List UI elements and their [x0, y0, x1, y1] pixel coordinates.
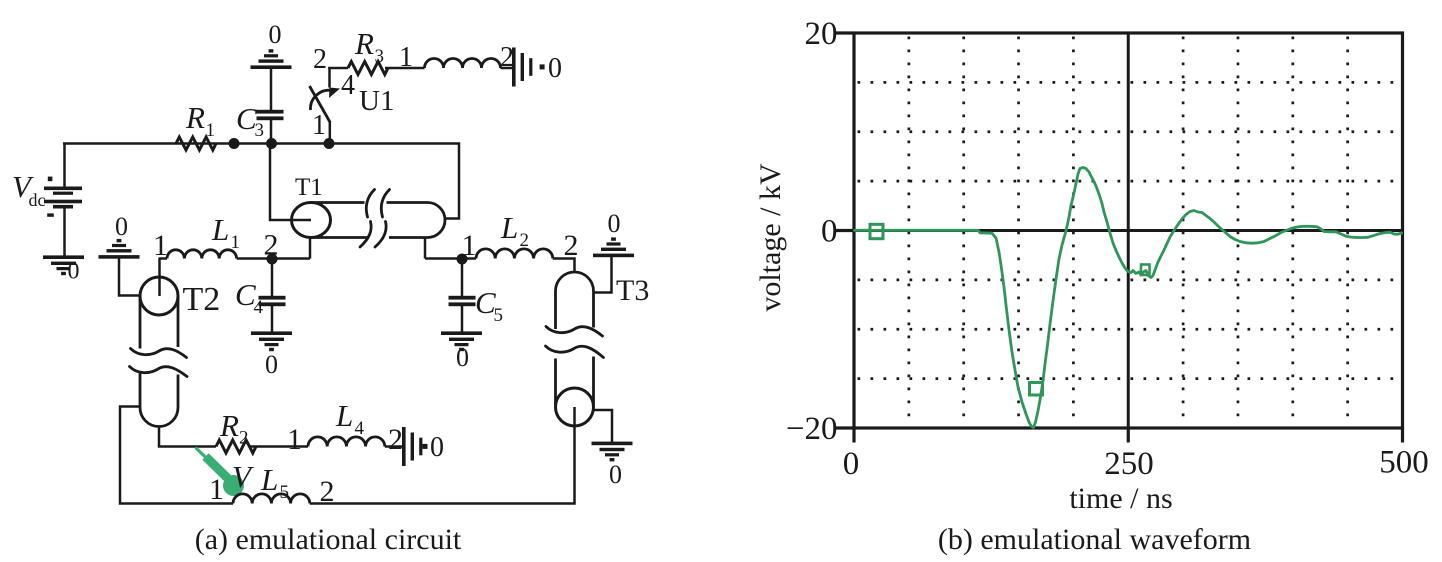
- resistor R3: [348, 62, 388, 75]
- svg-text:0: 0: [269, 20, 282, 49]
- svg-text:T1: T1: [295, 174, 323, 201]
- svg-text:4: 4: [254, 297, 264, 318]
- svg-text:2: 2: [564, 229, 579, 262]
- svg-text:R: R: [354, 26, 374, 61]
- x tick 500: [1401, 428, 1404, 443]
- battery V_dc: [44, 177, 82, 217]
- wire node1 to C5: [461, 259, 464, 296]
- svg-text:1: 1: [206, 120, 216, 141]
- svg-text:V: V: [232, 459, 254, 494]
- y tick 20: [835, 31, 853, 34]
- wire node2 to C4: [271, 259, 274, 296]
- wire R2 to L4: [250, 445, 308, 448]
- marker square 2: [1030, 383, 1043, 396]
- waveform curve: [855, 168, 1402, 428]
- svg-text:U1: U1: [359, 85, 394, 117]
- svg-text:2: 2: [388, 423, 403, 456]
- x tick 250: [1127, 428, 1130, 443]
- node U1/bus: [324, 138, 335, 149]
- capacitor C4: [259, 296, 286, 300]
- y tick 0: [835, 229, 853, 232]
- svg-text:0: 0: [456, 343, 469, 372]
- svg-text:0: 0: [843, 446, 860, 482]
- wire T1 shield-left to node 2: [272, 257, 311, 260]
- wire U1 to R3: [328, 67, 348, 70]
- svg-text:L: L: [335, 398, 353, 433]
- svg-text:(b) emulational waveform: (b) emulational waveform: [938, 523, 1251, 556]
- x tick 0: [852, 428, 855, 443]
- grid horizontal dotted lines: [858, 82, 1401, 378]
- svg-text:0: 0: [608, 209, 621, 238]
- node L2-1 / C5: [457, 254, 468, 265]
- wire C4 to ground: [271, 306, 274, 332]
- axis 250ns vertical line: [1127, 33, 1130, 428]
- svg-text:T3: T3: [616, 274, 649, 307]
- wire bus to T1 inner pin: [270, 143, 311, 221]
- svg-text:4: 4: [355, 418, 365, 439]
- wire L1 pin1 to T2 inner: [158, 259, 161, 297]
- svg-text:5: 5: [494, 305, 504, 326]
- svg-text:250: 250: [1104, 446, 1154, 482]
- wire T2 cap to R2 row: [159, 427, 216, 447]
- svg-text:L: L: [211, 212, 229, 247]
- ground 0 above T3: [593, 254, 634, 258]
- svg-text:0: 0: [430, 432, 444, 463]
- node C3/bus: [266, 138, 277, 149]
- transformer T2 (coax line): [130, 277, 188, 427]
- svg-text:2: 2: [239, 428, 249, 449]
- svg-text:0: 0: [821, 214, 838, 250]
- ground 0 below C4: [251, 331, 292, 335]
- inductor L1: [167, 250, 237, 259]
- wire top bus: [63, 142, 460, 145]
- svg-text:−20: −20: [786, 411, 838, 447]
- ground 0 below Vdc: [43, 255, 84, 259]
- svg-text:3: 3: [375, 46, 385, 67]
- wire ground to C3: [270, 69, 273, 111]
- marker square 1: [870, 224, 883, 238]
- wire T1 shield-left down: [309, 238, 312, 259]
- svg-text:R: R: [219, 408, 239, 443]
- node after R1: [229, 138, 240, 149]
- wire T2 ground to shield: [119, 258, 141, 296]
- svg-text:time / ns: time / ns: [1069, 482, 1172, 515]
- svg-text:20: 20: [805, 16, 838, 52]
- resistor R1: [176, 137, 216, 150]
- svg-text:0: 0: [115, 212, 128, 241]
- svg-text:0: 0: [265, 350, 278, 379]
- marker square 3: [1141, 265, 1150, 276]
- voltage probe (green marker): [197, 449, 245, 497]
- chart plot frame: [854, 33, 1403, 428]
- ground 0 below T3: [592, 442, 633, 446]
- capacitor C5: [449, 296, 476, 300]
- transformer T3 (coax line): [546, 272, 604, 426]
- ground 0 left of T2: [99, 255, 140, 259]
- wire L1 pin1 stub: [159, 257, 168, 260]
- svg-text:T2: T2: [183, 281, 221, 318]
- svg-text:dc: dc: [29, 190, 46, 210]
- svg-text:2: 2: [320, 475, 335, 508]
- wire T3 inner to bottom loop: [573, 407, 576, 504]
- wire L4 to ground: [385, 445, 402, 448]
- inductor L5: [233, 494, 310, 504]
- wire L3 to ground: [501, 67, 513, 70]
- svg-text:0: 0: [609, 460, 622, 489]
- ground 0 right of L4: [402, 427, 406, 466]
- svg-text:1: 1: [231, 232, 241, 253]
- wire T3 top shield to ground: [593, 257, 612, 293]
- wire R3 to L3: [385, 67, 425, 70]
- wire L2 to T3: [553, 259, 575, 273]
- wire bus to T1 right cap: [445, 143, 459, 219]
- svg-text:4: 4: [341, 70, 355, 101]
- svg-text:2: 2: [520, 230, 530, 251]
- svg-text:L: L: [260, 462, 278, 497]
- y tick -20: [835, 426, 853, 429]
- svg-text:1: 1: [287, 423, 302, 456]
- inductor L4: [308, 437, 385, 447]
- wire L1 to node 2: [237, 257, 272, 260]
- node L1-2 / C4: [267, 254, 278, 265]
- ground 0 right of L3: [512, 48, 516, 87]
- capacitor C3: [257, 110, 284, 114]
- svg-text:1: 1: [399, 42, 413, 73]
- ground 0 above C3: [251, 65, 292, 69]
- inductor L2: [476, 249, 553, 259]
- svg-text:L: L: [500, 210, 518, 245]
- axis zero line: [854, 229, 1403, 232]
- svg-text:1: 1: [209, 473, 224, 506]
- wire T1 shield-right down: [424, 238, 427, 259]
- wire node1 to L2: [462, 257, 476, 260]
- wire Vdc to bus: [63, 143, 66, 189]
- wire T2 shield to bottom loop: [120, 407, 233, 504]
- wire battery to ground: [63, 209, 66, 257]
- svg-text:R: R: [185, 100, 205, 135]
- grid vertical dotted lines: [909, 37, 1348, 427]
- svg-text:5: 5: [280, 482, 290, 503]
- svg-text:0: 0: [68, 259, 80, 285]
- wire bottom loop right: [310, 502, 576, 505]
- ground 0 below C5: [441, 331, 482, 335]
- svg-text:2: 2: [313, 44, 327, 75]
- svg-text:(a) emulational circuit: (a) emulational circuit: [195, 523, 462, 556]
- wire C5 to ground: [461, 306, 464, 332]
- resistor R2: [216, 440, 256, 453]
- switch U1: [310, 67, 341, 144]
- transformer T1 (coax line): [292, 190, 446, 248]
- wire T1 shield-right to node 1: [425, 257, 462, 260]
- wire C3 to bus: [270, 120, 273, 144]
- wire T3 bottom shield to ground: [593, 410, 612, 442]
- svg-text:voltage / kV: voltage / kV: [754, 163, 787, 312]
- svg-text:0: 0: [548, 53, 562, 84]
- svg-text:500: 500: [1379, 445, 1429, 481]
- svg-text:3: 3: [255, 120, 265, 141]
- inductor L3: [425, 59, 501, 69]
- svg-text:1: 1: [312, 110, 326, 141]
